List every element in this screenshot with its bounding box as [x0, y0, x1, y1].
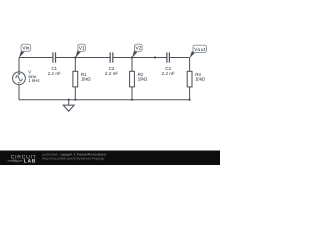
svg-text:2.2 nF: 2.2 nF — [162, 71, 175, 76]
svg-text:V2: V2 — [135, 46, 141, 52]
svg-text:2.2 nF: 2.2 nF — [48, 71, 61, 76]
svg-text:2.2 nF: 2.2 nF — [105, 71, 118, 76]
svg-text:LAB: LAB — [24, 159, 36, 165]
svg-text:Vout: Vout — [194, 47, 206, 53]
svg-text:V1: V1 — [79, 46, 85, 52]
svg-text:10 kΩ: 10 kΩ — [195, 76, 205, 81]
svg-text:10 kΩ: 10 kΩ — [138, 76, 148, 81]
svg-text:Vin: Vin — [22, 46, 29, 52]
svg-text:http:∕∕circuitlab.com∕c∕Synsre: http:∕∕circuitlab.com∕c∕Synsrera Flipsog — [43, 157, 104, 161]
svg-text:10 kΩ: 10 kΩ — [81, 76, 91, 81]
svg-text:1 kHz: 1 kHz — [28, 78, 40, 83]
